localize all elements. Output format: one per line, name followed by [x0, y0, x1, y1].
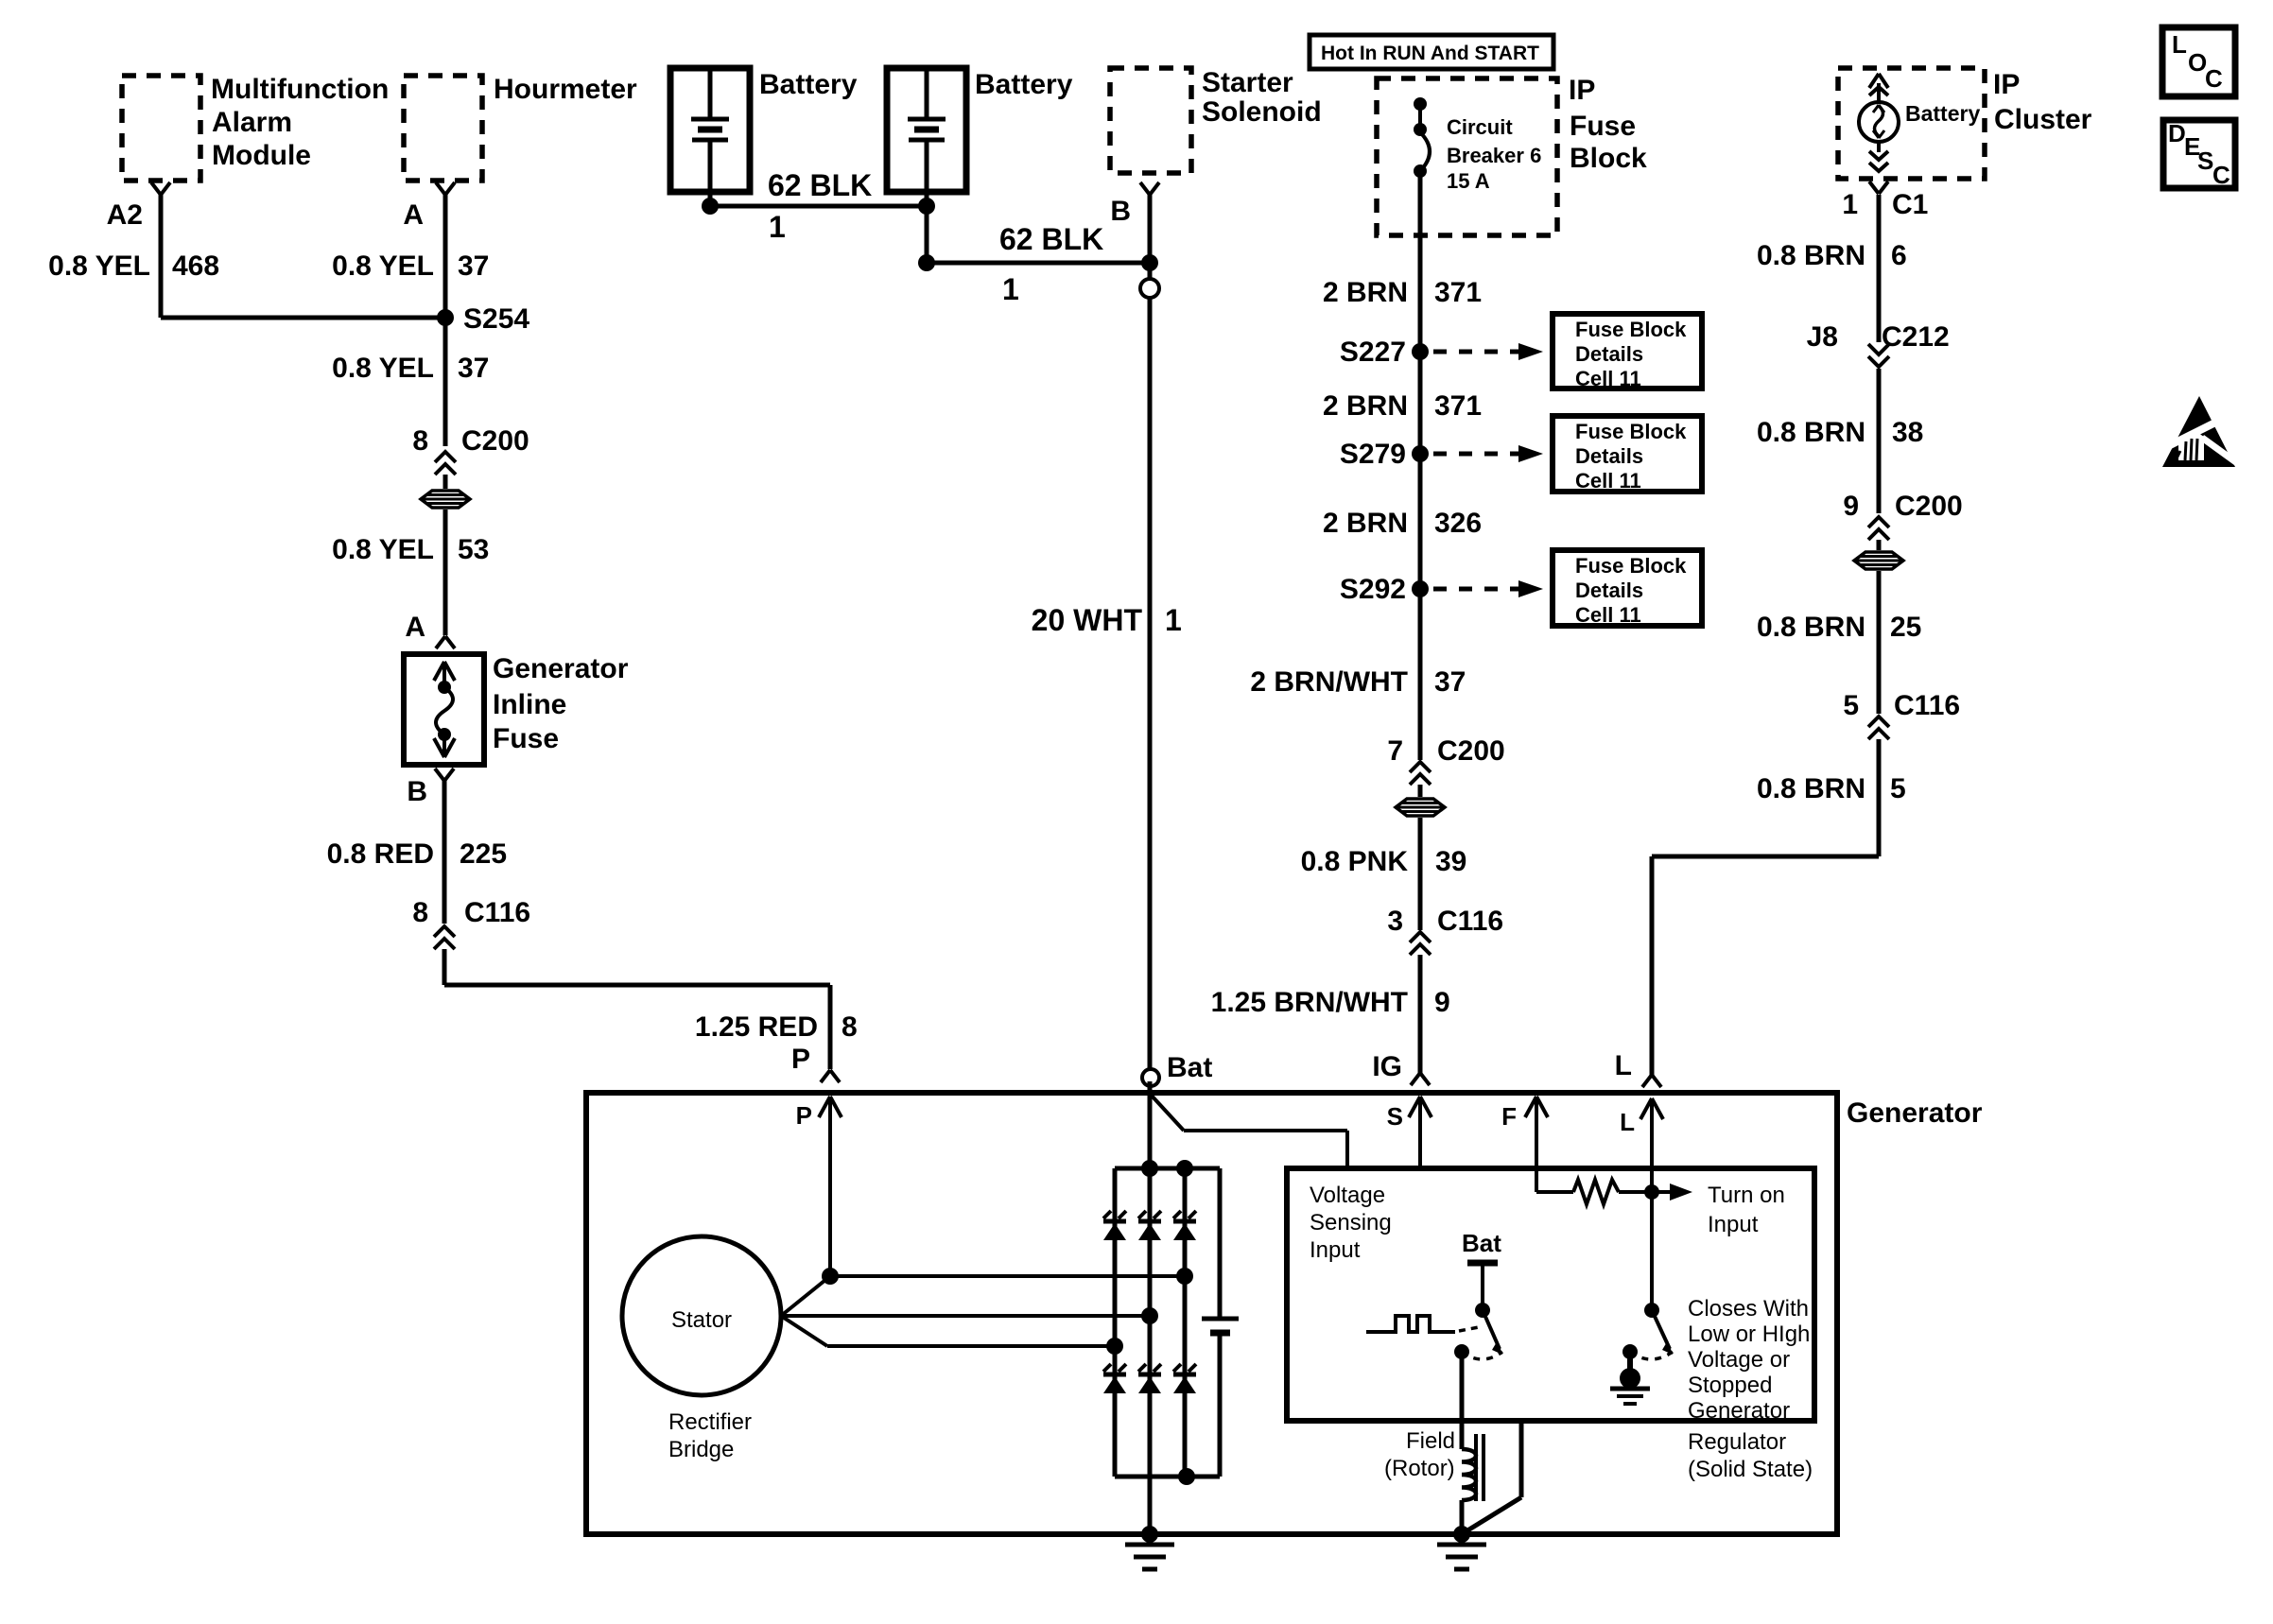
svg-text:1: 1 [769, 210, 786, 244]
svg-text:Bridge: Bridge [668, 1437, 734, 1462]
svg-text:Hot In RUN And START: Hot In RUN And START [1321, 43, 1539, 64]
svg-text:0.8 YEL: 0.8 YEL [332, 251, 434, 282]
svg-text:A: A [405, 612, 425, 643]
svg-text:C116: C116 [464, 897, 530, 928]
svg-text:C200: C200 [1895, 491, 1963, 522]
svg-text:62 BLK: 62 BLK [768, 168, 872, 202]
svg-text:Fuse Block: Fuse Block [1575, 554, 1687, 578]
svg-text:Battery: Battery [759, 69, 858, 100]
svg-text:15 A: 15 A [1447, 169, 1490, 193]
svg-text:Stator: Stator [671, 1307, 732, 1333]
svg-text:IG: IG [1372, 1051, 1402, 1082]
svg-text:37: 37 [458, 353, 489, 384]
svg-text:Input: Input [1708, 1212, 1759, 1237]
svg-text:9: 9 [1434, 987, 1450, 1018]
svg-text:0.8 BRN: 0.8 BRN [1757, 612, 1865, 643]
svg-text:S: S [1387, 1102, 1403, 1131]
svg-text:B: B [1110, 196, 1131, 227]
svg-text:39: 39 [1435, 846, 1466, 877]
svg-text:Block: Block [1570, 143, 1647, 174]
svg-text:(Solid State): (Solid State) [1688, 1457, 1813, 1482]
svg-text:Rectifier: Rectifier [668, 1409, 752, 1435]
svg-text:Circuit: Circuit [1447, 115, 1513, 139]
svg-text:Closes With: Closes With [1688, 1296, 1809, 1322]
svg-text:C1: C1 [1892, 189, 1928, 220]
svg-text:S292: S292 [1340, 574, 1406, 605]
svg-text:P: P [796, 1101, 812, 1130]
svg-text:Battery: Battery [975, 69, 1073, 100]
svg-text:Solenoid: Solenoid [1202, 96, 1322, 128]
svg-text:Battery: Battery [1905, 101, 1980, 126]
svg-text:C116: C116 [1894, 690, 1960, 721]
svg-text:Input: Input [1310, 1237, 1361, 1263]
svg-text:D: D [2168, 119, 2186, 147]
svg-text:IP: IP [1993, 69, 2020, 100]
svg-text:Alarm: Alarm [212, 107, 292, 138]
svg-text:2 BRN: 2 BRN [1323, 277, 1408, 308]
svg-text:5: 5 [1843, 690, 1859, 721]
svg-text:C200: C200 [461, 425, 529, 457]
svg-text:Module: Module [212, 140, 311, 171]
svg-text:7: 7 [1387, 735, 1403, 767]
svg-text:Details: Details [1575, 444, 1643, 468]
svg-text:S279: S279 [1340, 439, 1406, 470]
svg-text:37: 37 [1434, 666, 1466, 698]
svg-text:Breaker 6: Breaker 6 [1447, 144, 1541, 167]
svg-text:62 BLK: 62 BLK [999, 222, 1103, 256]
svg-text:5: 5 [1890, 773, 1906, 804]
svg-text:Stopped: Stopped [1688, 1373, 1772, 1398]
svg-text:Hourmeter: Hourmeter [494, 74, 637, 105]
svg-text:C212: C212 [1882, 321, 1950, 353]
svg-text:0.8 BRN: 0.8 BRN [1757, 773, 1865, 804]
svg-text:C: C [2212, 161, 2230, 189]
svg-text:38: 38 [1892, 417, 1923, 448]
svg-text:326: 326 [1434, 508, 1482, 539]
svg-text:C200: C200 [1437, 735, 1505, 767]
svg-text:8: 8 [842, 1011, 858, 1043]
svg-text:Details: Details [1575, 579, 1643, 602]
svg-text:S254: S254 [463, 303, 529, 335]
svg-text:Cell 11: Cell 11 [1575, 469, 1641, 492]
svg-text:Regulator: Regulator [1688, 1429, 1786, 1455]
svg-text:Turn on: Turn on [1708, 1183, 1785, 1208]
svg-text:S: S [2197, 147, 2213, 175]
svg-text:3: 3 [1387, 906, 1403, 937]
svg-text:0.8 PNK: 0.8 PNK [1301, 846, 1409, 877]
svg-text:0.8 BRN: 0.8 BRN [1757, 417, 1865, 448]
svg-text:C: C [2205, 64, 2223, 93]
svg-text:Generator: Generator [1847, 1097, 1983, 1129]
svg-text:Fuse: Fuse [493, 723, 559, 754]
svg-text:1: 1 [1002, 272, 1019, 306]
svg-text:S227: S227 [1340, 337, 1406, 368]
svg-text:371: 371 [1434, 390, 1482, 422]
svg-text:Bat: Bat [1462, 1229, 1501, 1257]
svg-text:Fuse Block: Fuse Block [1575, 420, 1687, 443]
svg-text:1: 1 [1842, 189, 1858, 220]
svg-text:Cell 11: Cell 11 [1575, 603, 1641, 627]
svg-text:Generator: Generator [493, 653, 629, 684]
svg-text:0.8 YEL: 0.8 YEL [48, 251, 150, 282]
svg-text:Fuse Block: Fuse Block [1575, 318, 1687, 341]
svg-text:Field: Field [1406, 1428, 1455, 1454]
svg-text:Bat: Bat [1167, 1052, 1212, 1083]
svg-text:A2: A2 [107, 199, 143, 231]
svg-text:8: 8 [412, 425, 428, 457]
svg-text:2 BRN: 2 BRN [1323, 508, 1408, 539]
svg-text:371: 371 [1434, 277, 1482, 308]
svg-text:L: L [1615, 1050, 1632, 1081]
svg-text:1.25 RED: 1.25 RED [695, 1011, 818, 1043]
svg-text:C116: C116 [1437, 906, 1503, 937]
svg-text:Cell 11: Cell 11 [1575, 367, 1641, 390]
svg-text:20 WHT: 20 WHT [1032, 603, 1143, 637]
svg-text:9: 9 [1843, 491, 1859, 522]
svg-text:Starter: Starter [1202, 67, 1293, 98]
svg-text:L: L [1620, 1108, 1635, 1136]
svg-text:Details: Details [1575, 342, 1643, 366]
svg-text:2 BRN: 2 BRN [1323, 390, 1408, 422]
svg-text:(Rotor): (Rotor) [1384, 1456, 1455, 1481]
svg-text:1: 1 [1165, 603, 1182, 637]
svg-text:A: A [403, 199, 424, 231]
svg-text:Low or HIgh: Low or HIgh [1688, 1322, 1810, 1347]
svg-text:Multifunction: Multifunction [211, 74, 389, 105]
svg-text:Generator: Generator [1688, 1398, 1790, 1424]
svg-text:P: P [791, 1044, 810, 1075]
svg-text:0.8 RED: 0.8 RED [327, 838, 434, 870]
svg-text:0.8 BRN: 0.8 BRN [1757, 240, 1865, 271]
svg-text:J8: J8 [1807, 321, 1838, 353]
svg-text:IP: IP [1569, 75, 1595, 106]
svg-text:6: 6 [1891, 240, 1907, 271]
svg-text:225: 225 [460, 838, 507, 870]
svg-text:0.8 YEL: 0.8 YEL [332, 353, 434, 384]
svg-text:Voltage: Voltage [1310, 1183, 1385, 1208]
svg-text:Cluster: Cluster [1994, 104, 2092, 135]
svg-text:Inline: Inline [493, 689, 566, 720]
svg-text:2 BRN/WHT: 2 BRN/WHT [1250, 666, 1408, 698]
svg-text:F: F [1501, 1102, 1517, 1131]
svg-text:37: 37 [458, 251, 489, 282]
svg-text:468: 468 [172, 251, 219, 282]
svg-text:53: 53 [458, 534, 489, 565]
svg-text:L: L [2172, 30, 2187, 59]
svg-text:1.25 BRN/WHT: 1.25 BRN/WHT [1211, 987, 1408, 1018]
svg-text:B: B [407, 776, 427, 807]
svg-text:0.8 YEL: 0.8 YEL [332, 534, 434, 565]
svg-text:Sensing: Sensing [1310, 1210, 1392, 1235]
svg-text:Fuse: Fuse [1570, 111, 1636, 142]
svg-text:8: 8 [412, 897, 428, 928]
svg-text:25: 25 [1890, 612, 1921, 643]
svg-text:Voltage or: Voltage or [1688, 1347, 1790, 1373]
